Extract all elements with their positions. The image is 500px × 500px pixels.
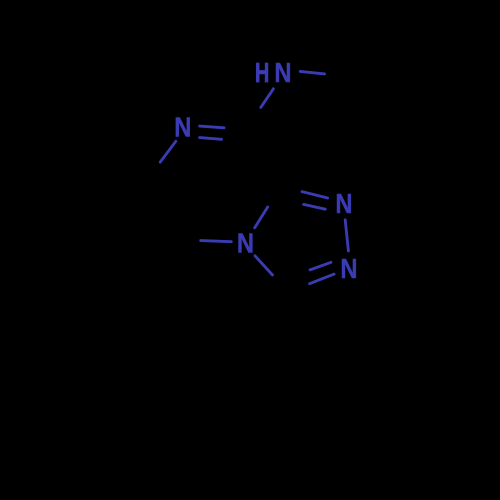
svg-text:N: N [174,113,191,143]
svg-text:N: N [340,254,357,284]
wire: double bond N2=C3 main line [310,274,335,284]
wire: double bond C8=N7 main line [200,126,224,128]
wire: bond N4-C8a [255,207,268,228]
svg-text:N: N [335,189,352,219]
wire: bond N4-C3 [255,256,273,275]
wire: bond C5-N4 [201,241,232,242]
wire: double bond C8a=N1 second line [304,204,326,209]
wire: bond N(H)-CH3 [300,71,324,74]
wire: bond N(H)-C8 [261,89,274,108]
svg-text:N: N [237,229,254,259]
wire: bond N1-N2 [345,220,348,251]
svg-text:N: N [274,59,291,89]
wire: double bond N2=C3 second line [310,262,331,270]
wire: double bond C8=N7 second line [200,138,222,140]
wire: double bond C8a=N1 main line [302,192,328,198]
wire: bond N7-C6 [160,141,176,162]
svg-text:H: H [255,58,269,89]
